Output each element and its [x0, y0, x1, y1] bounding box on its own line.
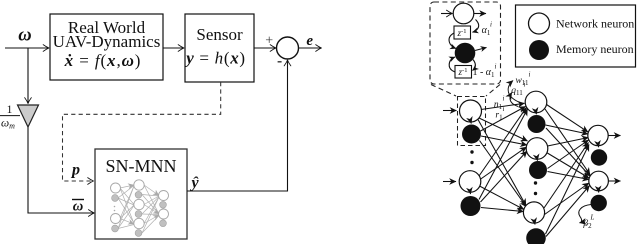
block SN-MNN: [95, 149, 187, 239]
wire output arrow 1: [608, 135, 620, 137]
curved arrow w11 to neuron: [508, 81, 521, 104]
curved wire network neuron to delay z1: [473, 20, 479, 33]
svg-text:L: L: [590, 214, 595, 222]
input network neuron 1: [460, 100, 482, 122]
pair arrow h3: [534, 224, 536, 225]
pair arrow h1: [535, 113, 537, 114]
node p label: [70, 162, 80, 179]
label beta2: [582, 214, 594, 231]
hidden network neuron 2: [526, 138, 548, 160]
svg-text:SN-MNN: SN-MNN: [105, 156, 176, 176]
input memory neuron 1: [462, 125, 481, 144]
curved arrow q11 to neuron: [510, 93, 518, 107]
dashed model box: [430, 2, 501, 84]
hidden network neuron 1: [525, 91, 547, 113]
svg-text:p: p: [70, 162, 80, 179]
label n1: [494, 95, 505, 112]
hidden memory neuron 2: [529, 161, 547, 179]
output network neuron 2: [589, 171, 609, 191]
svg-text:ω: ω: [18, 26, 31, 46]
svg-text:Sensor: Sensor: [196, 25, 243, 44]
wire input arrow 2: [443, 181, 456, 183]
model network neuron: [453, 3, 474, 24]
svg-text:i: i: [495, 63, 497, 71]
wire triangle output to SN-MNN (omega-bar): [28, 127, 94, 213]
svg-text:ẋ = f(x,ω): ẋ = f(x,ω): [64, 51, 142, 70]
svg-text:Network neuron: Network neuron: [556, 17, 634, 31]
output memory neuron 2: [591, 195, 607, 211]
node y-hat label: [189, 175, 199, 192]
legend label Network neuron: [556, 17, 634, 31]
wire error output e: [299, 47, 322, 49]
svg-text:ω: ω: [73, 199, 84, 215]
input network neuron 2: [459, 171, 481, 193]
svg-text:i: i: [524, 81, 526, 89]
summing junction: [277, 37, 299, 59]
legend network neuron symbol: [529, 13, 550, 34]
node omega-bar label: [72, 199, 84, 215]
mini network sketch inside SN-MNN (faded): [118, 185, 159, 233]
wires input layer to hidden layer: [478, 103, 528, 211]
wire out of memory neuron: [475, 48, 487, 51]
pair arrow n1: [470, 123, 472, 124]
svg-text:UAV-Dynamics: UAV-Dynamics: [53, 32, 161, 51]
output memory neuron 1: [591, 149, 607, 165]
label w11: [515, 71, 530, 88]
svg-text:+: +: [265, 34, 273, 49]
delay element z1: [454, 26, 471, 39]
label q11: [511, 81, 525, 98]
mini neurons column 1: [111, 183, 121, 193]
wire input arrow 1: [443, 110, 457, 112]
wire SN-MNN output y-hat feedback to summing junction: [187, 60, 288, 191]
mini wires layer2 to layer3: [144, 185, 159, 196]
label 1/omega_m: [0, 104, 20, 131]
model memory neuron: [455, 43, 475, 63]
svg-text:ŷ: ŷ: [189, 175, 199, 192]
plus sign: [265, 34, 273, 49]
curved arrow beta feedback from output memory neuron 2: [579, 205, 591, 223]
wires hidden layer to output layer: [544, 105, 591, 237]
svg-text:y = h(x): y = h(x): [184, 49, 246, 68]
minus sign: [278, 61, 282, 63]
svg-text:i: i: [529, 71, 531, 79]
svg-text:Memory neuron: Memory neuron: [556, 42, 634, 56]
wire Sensor to summing junction: [254, 47, 276, 49]
curved wire delay z2 back to memory neuron: [449, 57, 455, 72]
svg-text:i: i: [503, 105, 505, 113]
mini wires layer1 to layer2: [120, 185, 134, 188]
svg-text:1: 1: [7, 104, 13, 116]
mini neurons column 2: [134, 180, 144, 190]
label alpha: [482, 21, 492, 38]
dashed callout line right: [486, 85, 500, 97]
node omega label: [18, 26, 31, 46]
label r1: [495, 105, 504, 122]
wire UAV to Sensor: [163, 47, 184, 49]
input memory neuron 2: [461, 196, 481, 216]
dashed rect around input pair: [458, 97, 486, 146]
input layer dots: [470, 150, 473, 164]
gain triangle 1/omega_m: [18, 105, 39, 127]
wire branch down to gain triangle: [27, 48, 29, 104]
curved wire memory neuron to delay z2: [473, 60, 476, 71]
node e label: [306, 33, 313, 49]
block Sensor: [184, 14, 254, 82]
wire into model network neuron: [441, 13, 452, 15]
svg-text:e: e: [306, 33, 313, 49]
pair arrow o1: [597, 146, 599, 147]
hidden layer dots: [534, 181, 537, 195]
pair arrow n2: [469, 193, 471, 194]
hidden network neuron 3: [523, 202, 544, 223]
hidden memory neuron 1: [528, 115, 546, 133]
svg-text:i: i: [490, 21, 492, 29]
wire out of model network neuron: [474, 13, 486, 15]
pair arrow h2: [536, 160, 538, 161]
legend memory neuron symbol: [529, 40, 549, 60]
wire omega input into UAV block: [5, 47, 49, 49]
dashed callout line left: [431, 85, 456, 97]
delay element z2: [455, 66, 472, 79]
block Real World UAV-Dynamics: [50, 14, 163, 80]
legend label Memory neuron: [556, 42, 634, 56]
curved wire delay z1 to memory neuron: [449, 33, 456, 49]
output network neuron 1: [588, 125, 608, 145]
pair arrow o2: [598, 191, 600, 192]
mini neurons column 3: [159, 191, 169, 201]
dashed wire sensor feedback to p input: [63, 82, 221, 181]
wire output arrow 2: [609, 180, 621, 182]
label 1-alpha: [472, 63, 496, 80]
hidden memory neuron 3: [526, 228, 546, 244]
svg-text:i: i: [503, 95, 505, 103]
